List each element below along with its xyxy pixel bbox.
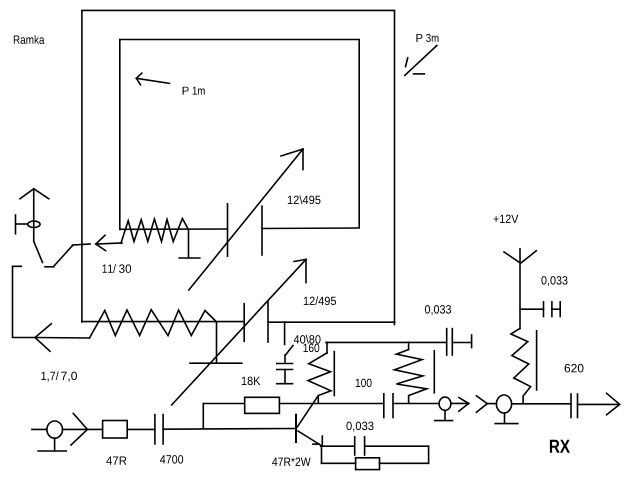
coil L2 1,7/7,0 winding zigzag xyxy=(90,310,217,338)
label 0,033 emitter xyxy=(346,422,373,432)
label 0,033 supply xyxy=(541,276,567,286)
wire bottom loop left xyxy=(322,462,356,464)
capacitor C2 arrow shaft xyxy=(172,259,306,405)
wire base riser xyxy=(202,404,204,428)
resistor R3 47R*2W box xyxy=(356,458,380,470)
wire bracket from switch down xyxy=(13,266,36,337)
wire emitter left segment xyxy=(321,445,355,447)
resistor 100 top lead xyxy=(408,342,410,349)
switch SA1 contact dash xyxy=(45,266,54,268)
label P 3m xyxy=(416,34,422,42)
capacitor 0,033 rail left plate xyxy=(446,329,448,355)
+12V arrow barbs xyxy=(504,251,536,263)
wire XS3 to C7 xyxy=(512,403,571,405)
annotation arrow P1m barbs xyxy=(136,73,142,85)
annotation arrow P3m barb vertical xyxy=(406,58,408,67)
signal arrow out barbs xyxy=(459,398,469,412)
label 11/30 xyxy=(103,264,116,273)
wire collector rail xyxy=(326,341,447,343)
wire +12V to decoupling cap xyxy=(520,308,544,310)
trimmer C3 bottom plate xyxy=(277,369,293,371)
capacitor C6 100 left plate xyxy=(383,394,385,418)
capacitor C7 620 right plate xyxy=(577,394,579,418)
resistor 620 core line xyxy=(536,331,538,390)
wire mate to XS3 xyxy=(487,403,496,405)
resistor 160 zigzag xyxy=(308,353,331,403)
resistor 100 core line xyxy=(433,351,435,393)
wire rail cap to end bar xyxy=(452,342,471,344)
node tap stem under L2 xyxy=(216,322,218,363)
signal arrow mate barbs xyxy=(476,396,487,412)
coil L1 11/30 winding zigzag xyxy=(121,219,188,244)
signal arrow RX barbs xyxy=(607,393,620,414)
node tap stem under L1 xyxy=(188,229,190,258)
wire bottom loop riser xyxy=(428,446,430,463)
label P 3m part2 xyxy=(426,34,438,42)
capacitor C1 arrow shaft xyxy=(189,149,303,290)
wire arrow to R1 xyxy=(87,428,102,430)
switch SA1 arm xyxy=(54,246,73,267)
capacitor C2 arrowhead barb vertical xyxy=(305,259,307,282)
transistor Q1 base bar xyxy=(295,415,297,442)
label 1,7/7,0 part2 xyxy=(61,372,77,382)
label 18K xyxy=(242,377,261,386)
capacitor C4 4700 left plate xyxy=(154,415,156,444)
transistor Q1 collector xyxy=(297,396,318,427)
wire emitter branch down left xyxy=(321,446,323,463)
label 12back495 xyxy=(288,195,321,204)
label 47R*2W xyxy=(272,458,311,466)
wire riser to R2 xyxy=(203,403,244,405)
connector XS2 jack xyxy=(439,397,451,410)
wire terminal to insulator xyxy=(16,223,28,225)
capacitor 0,033 decoupling right plate xyxy=(551,302,553,317)
wire +12V rail vertical xyxy=(519,249,521,329)
wire inner loop bottom left segment xyxy=(120,228,228,230)
label 620 xyxy=(565,364,584,373)
capacitor C1 arrowhead barb vertical xyxy=(302,149,304,170)
ground XS1 bar xyxy=(38,450,66,452)
transistor Q1 emitter xyxy=(298,431,321,445)
annotation arrow to L2 xyxy=(35,337,90,340)
switch SA1 arm lead xyxy=(34,241,43,262)
ground XS3 stem xyxy=(504,413,506,423)
ground XS2 stem xyxy=(444,410,446,420)
trimmer C3 label leader xyxy=(286,346,294,356)
label 0,033 rail xyxy=(425,305,451,315)
trimmer C3 top plate xyxy=(277,363,293,365)
transistor Q1 emitter arrow barb vertical xyxy=(321,436,323,445)
wire XS1 to arrow xyxy=(63,428,88,430)
label 40back80 xyxy=(294,335,321,344)
wire decoupling cap to end bar xyxy=(552,308,560,310)
trimmer C3 end bar xyxy=(277,383,293,385)
wire outer loop bottom right segment xyxy=(268,321,395,323)
capacitor C2 arrowhead barb horizontal xyxy=(294,259,306,261)
label 47R xyxy=(106,457,126,465)
wire bottom loop right xyxy=(380,462,429,464)
label 4700 xyxy=(160,455,183,464)
wire R2 to collector node xyxy=(279,403,383,405)
resistor 160 core line xyxy=(333,352,335,396)
capacitor C6 100 right plate xyxy=(392,394,394,418)
resistor 620 zigzag xyxy=(511,328,531,403)
annotation arrow to L1 barbs xyxy=(96,235,106,250)
wire input stub xyxy=(32,428,47,430)
tap bar under L2 xyxy=(190,362,242,364)
capacitor C5 0,033 left plate xyxy=(354,437,356,455)
trimmer C3 bottom lead xyxy=(284,370,286,384)
annotation arrow P1m xyxy=(136,78,169,83)
label Ramka xyxy=(14,35,45,44)
capacitor C5 0,033 right plate xyxy=(364,437,366,455)
end bar after decoupling cap xyxy=(559,302,561,317)
label 100 xyxy=(356,379,372,388)
ground XS3 bar xyxy=(495,423,518,425)
capacitor C7 620 left plate xyxy=(570,394,572,418)
capacitor C1 12\495 right plate xyxy=(261,206,263,255)
wire C4 to base xyxy=(163,428,296,431)
wire inner loop bottom right segment xyxy=(262,227,359,230)
capacitor C2 12/495 left plate xyxy=(243,304,245,342)
wire emitter right segment xyxy=(365,445,429,447)
resistor R1 47R box xyxy=(103,421,128,439)
capacitor C4 4700 right plate xyxy=(162,415,164,444)
label P 1m part2 xyxy=(193,87,205,95)
transistor Q1 emitter arrow barb horizontal xyxy=(313,443,319,445)
label 160 xyxy=(304,344,320,353)
switch SA1 contact to frame xyxy=(73,244,91,245)
wire outer loop bottom left segment xyxy=(82,321,244,323)
annotation arrow P3m barb horizontal xyxy=(414,73,425,75)
label 12slash495 xyxy=(304,296,336,305)
ground XS1 stem xyxy=(54,438,56,451)
resistor 160 top lead xyxy=(326,342,328,353)
ground XS2 bar xyxy=(435,420,453,422)
wire C6 to XS2 xyxy=(393,403,439,405)
connector XS3 jack xyxy=(496,395,511,413)
annotation arrow to L1 xyxy=(96,243,122,244)
wire outer loop to rail drop xyxy=(393,322,395,324)
capacitor C1 12\495 left plate xyxy=(227,204,229,256)
capacitor 0,033 decoupling left plate xyxy=(543,302,545,317)
label +12V xyxy=(494,215,519,223)
trimmer C3 top lead xyxy=(284,322,286,345)
capacitor C2 12/495 right plate xyxy=(267,302,269,342)
label P 1m xyxy=(183,87,189,95)
wire R1 to C4 xyxy=(127,428,155,430)
insulator bead xyxy=(28,221,40,227)
inner loop frame P1m xyxy=(120,40,359,230)
signal arrow input barbs xyxy=(71,413,87,445)
capacitor 0,033 rail right plate xyxy=(451,329,453,355)
resistor 100 zigzag xyxy=(394,350,427,404)
annotation arrow to L2 barbs xyxy=(35,324,51,352)
label 11/30 part2 xyxy=(119,264,131,273)
antenna terminal post xyxy=(15,215,17,234)
label RX xyxy=(550,440,570,453)
connector XS1 input jack xyxy=(47,421,63,438)
label 1,7/7,0 xyxy=(41,371,58,381)
tap bar under L1 xyxy=(179,257,200,259)
wire C7 to output arrow xyxy=(578,403,620,405)
antenna mast xyxy=(33,189,35,242)
capacitor C1 arrowhead barb horizontal xyxy=(281,149,303,156)
annotation arrow P3m shaft xyxy=(405,46,437,76)
resistor R2 18K box xyxy=(245,397,280,413)
wire XS2 to arrow xyxy=(451,402,469,404)
antenna arrowhead xyxy=(20,189,49,199)
trimmer C3 upper lead stub xyxy=(284,355,286,362)
outer loop frame P3m xyxy=(82,10,395,323)
end bar after rail cap xyxy=(471,335,473,348)
